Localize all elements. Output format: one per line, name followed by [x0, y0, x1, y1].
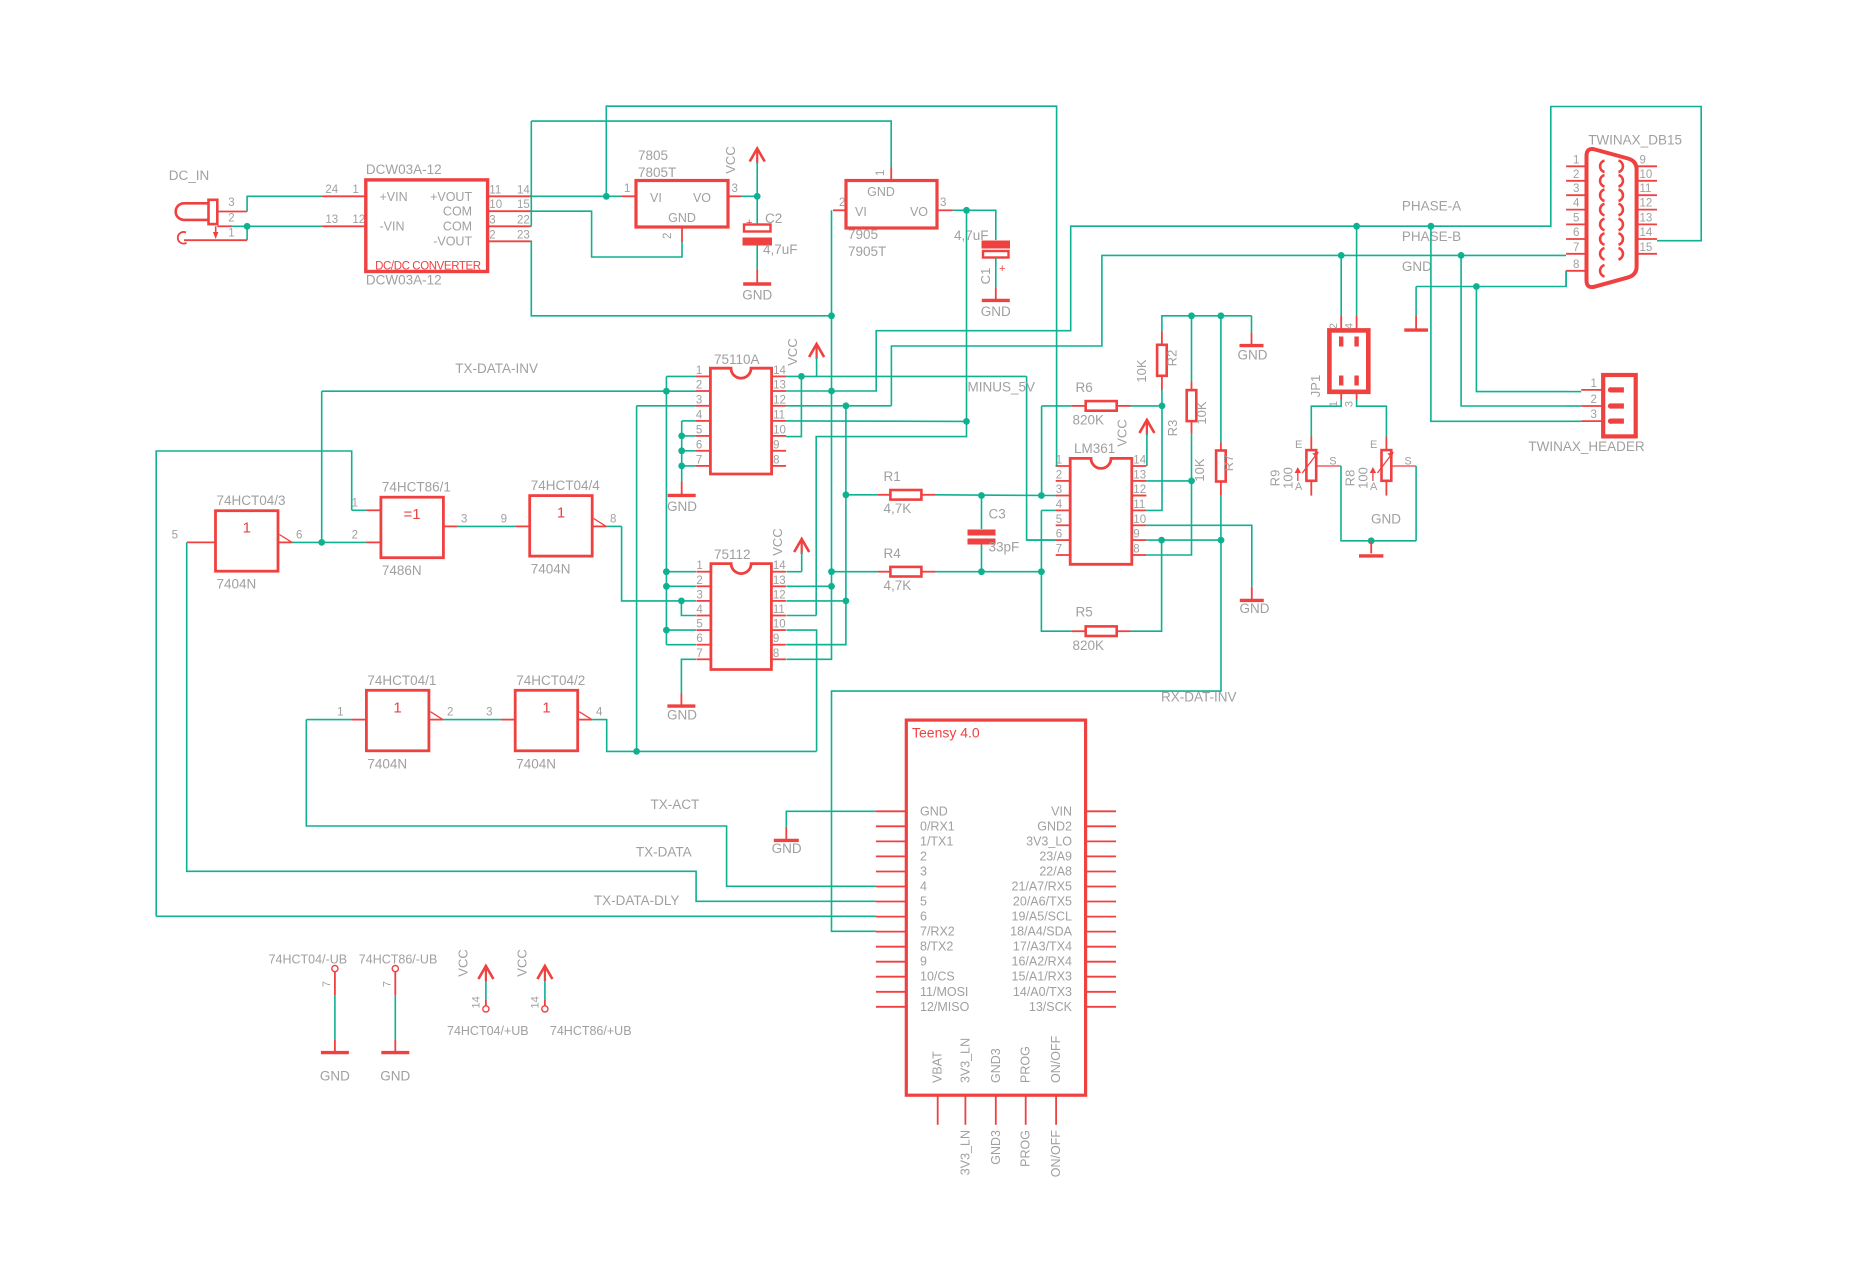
svg-text:21/A7/RX5: 21/A7/RX5: [1012, 880, 1073, 894]
svg-text:14: 14: [1133, 455, 1146, 467]
svg-text:R2: R2: [1165, 350, 1180, 367]
svg-text:+: +: [999, 263, 1005, 275]
svg-text:15: 15: [1640, 242, 1653, 254]
svg-text:A: A: [1370, 481, 1378, 493]
svg-text:+VOUT: +VOUT: [430, 190, 472, 204]
svg-text:8: 8: [773, 648, 779, 660]
svg-text:3: 3: [228, 197, 234, 209]
svg-text:10: 10: [1133, 514, 1146, 526]
svg-text:11: 11: [773, 409, 785, 421]
svg-text:10K: 10K: [1192, 458, 1207, 481]
svg-text:75110A: 75110A: [714, 352, 760, 367]
svg-text:9: 9: [773, 439, 779, 451]
svg-text:3: 3: [461, 514, 467, 526]
svg-text:4,7uF: 4,7uF: [763, 242, 798, 257]
svg-text:E: E: [1370, 439, 1377, 451]
svg-text:+VIN: +VIN: [380, 190, 408, 204]
svg-text:TX-DATA: TX-DATA: [636, 845, 692, 860]
svg-text:1: 1: [542, 699, 550, 716]
svg-text:COM: COM: [443, 220, 472, 234]
svg-text:1: 1: [624, 183, 630, 195]
svg-text:14: 14: [1640, 227, 1653, 239]
svg-text:R5: R5: [1076, 605, 1093, 620]
svg-text:VO: VO: [693, 191, 711, 205]
svg-text:GND: GND: [920, 804, 948, 818]
svg-text:LM361: LM361: [1074, 441, 1115, 456]
svg-text:1: 1: [352, 184, 358, 196]
svg-text:14: 14: [529, 996, 541, 1008]
svg-text:6: 6: [296, 530, 302, 542]
svg-text:13: 13: [1640, 212, 1653, 224]
svg-text:1: 1: [243, 520, 251, 537]
svg-text:3: 3: [1056, 484, 1062, 496]
svg-text:DCW03A-12: DCW03A-12: [366, 162, 442, 177]
svg-text:R6: R6: [1076, 380, 1093, 395]
svg-text:2: 2: [1573, 169, 1579, 181]
svg-text:3V3_LN: 3V3_LN: [958, 1038, 972, 1083]
svg-text:5: 5: [172, 530, 178, 542]
svg-text:22: 22: [517, 214, 530, 226]
svg-text:1: 1: [1056, 455, 1062, 467]
svg-text:9: 9: [501, 514, 507, 526]
svg-text:7404N: 7404N: [516, 756, 556, 771]
svg-text:1: 1: [696, 560, 702, 572]
svg-text:16/A2/RX4: 16/A2/RX4: [1012, 955, 1073, 969]
svg-text:S: S: [1329, 456, 1336, 468]
svg-text:7805T: 7805T: [638, 165, 676, 180]
svg-text:12: 12: [1640, 198, 1653, 210]
svg-text:74HCT04/-UB: 74HCT04/-UB: [269, 953, 348, 967]
svg-text:3V3_LN: 3V3_LN: [958, 1130, 972, 1175]
svg-text:12: 12: [773, 589, 786, 601]
svg-text:VI: VI: [650, 191, 662, 205]
svg-text:VCC: VCC: [455, 949, 470, 976]
svg-text:TX-DATA-INV: TX-DATA-INV: [455, 361, 538, 376]
svg-text:Teensy 4.0: Teensy 4.0: [912, 725, 980, 741]
svg-text:2: 2: [920, 849, 927, 863]
svg-text:2: 2: [839, 197, 845, 209]
svg-text:JP1: JP1: [1308, 375, 1323, 397]
svg-text:74HCT04/+UB: 74HCT04/+UB: [447, 1024, 529, 1038]
svg-text:19/A5/SCL: 19/A5/SCL: [1012, 910, 1073, 924]
svg-text:12: 12: [773, 394, 786, 406]
svg-text:4: 4: [1056, 499, 1063, 511]
svg-text:6: 6: [1056, 529, 1062, 541]
svg-text:7404N: 7404N: [531, 562, 571, 577]
svg-text:0/RX1: 0/RX1: [920, 819, 955, 833]
svg-text:11: 11: [773, 604, 785, 616]
svg-text:R7: R7: [1221, 455, 1236, 472]
svg-text:7486N: 7486N: [382, 563, 422, 578]
svg-text:VCC: VCC: [770, 528, 785, 555]
svg-text:5: 5: [696, 619, 702, 631]
svg-text:100: 100: [1280, 467, 1295, 489]
svg-text:2: 2: [489, 229, 495, 241]
svg-text:10: 10: [773, 424, 786, 436]
svg-text:14: 14: [470, 996, 482, 1008]
svg-text:1: 1: [337, 707, 343, 719]
svg-text:E: E: [1295, 439, 1302, 451]
svg-text:2: 2: [1056, 469, 1062, 481]
svg-text:GND: GND: [1402, 259, 1432, 274]
svg-text:8: 8: [1573, 259, 1579, 271]
svg-text:4,7uF: 4,7uF: [954, 228, 989, 243]
svg-text:VO: VO: [910, 205, 928, 219]
svg-text:1: 1: [875, 170, 887, 176]
svg-text:7: 7: [381, 981, 393, 987]
svg-text:3: 3: [489, 214, 495, 226]
svg-text:C2: C2: [765, 211, 782, 226]
svg-text:820K: 820K: [1073, 638, 1105, 653]
svg-text:GND: GND: [667, 499, 697, 514]
svg-text:11: 11: [1640, 183, 1652, 195]
svg-text:15/A1/RX3: 15/A1/RX3: [1012, 970, 1073, 984]
svg-text:DC/DC CONVERTER: DC/DC CONVERTER: [375, 260, 481, 272]
svg-text:12/MISO: 12/MISO: [920, 1000, 970, 1014]
svg-text:ON/OFF: ON/OFF: [1049, 1035, 1063, 1083]
svg-text:4: 4: [596, 707, 603, 719]
svg-text:6: 6: [696, 439, 702, 451]
svg-text:GND: GND: [667, 708, 697, 723]
svg-text:VCC: VCC: [723, 146, 738, 173]
svg-text:20/A6/TX5: 20/A6/TX5: [1013, 895, 1072, 909]
svg-text:12: 12: [1133, 484, 1146, 496]
svg-text:GND: GND: [1238, 348, 1268, 363]
svg-text:74HCT04/3: 74HCT04/3: [217, 493, 286, 508]
svg-text:1: 1: [1591, 378, 1597, 390]
svg-text:3: 3: [696, 394, 702, 406]
svg-text:74HCT04/4: 74HCT04/4: [531, 478, 601, 493]
svg-text:DCW03A-12: DCW03A-12: [366, 273, 442, 288]
svg-text:2: 2: [1591, 394, 1597, 406]
svg-text:+: +: [746, 217, 752, 229]
svg-text:S: S: [1404, 456, 1411, 468]
svg-text:10: 10: [773, 619, 786, 631]
svg-text:3: 3: [696, 589, 702, 601]
svg-text:13/SCK: 13/SCK: [1029, 1000, 1073, 1014]
svg-text:R1: R1: [884, 469, 901, 484]
svg-text:4: 4: [920, 880, 927, 894]
svg-text:14/A0/TX3: 14/A0/TX3: [1013, 985, 1072, 999]
svg-text:12: 12: [352, 214, 365, 226]
svg-text:2: 2: [696, 575, 702, 587]
svg-text:VCC: VCC: [1115, 419, 1130, 446]
svg-text:9: 9: [920, 955, 927, 969]
svg-text:13: 13: [325, 214, 338, 226]
svg-text:COM: COM: [443, 204, 472, 218]
svg-text:7404N: 7404N: [217, 577, 257, 592]
svg-text:2: 2: [352, 530, 358, 542]
svg-text:8/TX2: 8/TX2: [920, 940, 953, 954]
svg-text:11: 11: [489, 184, 501, 196]
svg-text:10K: 10K: [1194, 401, 1209, 424]
svg-text:5: 5: [920, 895, 927, 909]
svg-text:5: 5: [1056, 514, 1062, 526]
svg-text:9: 9: [1133, 529, 1139, 541]
svg-text:R3: R3: [1165, 420, 1180, 437]
svg-text:23: 23: [517, 229, 530, 241]
svg-text:A: A: [1295, 481, 1303, 493]
svg-text:GND: GND: [380, 1068, 410, 1083]
svg-text:17/A3/TX4: 17/A3/TX4: [1013, 940, 1072, 954]
svg-text:13: 13: [773, 575, 786, 587]
svg-text:GND3: GND3: [989, 1130, 1003, 1165]
svg-text:9: 9: [773, 633, 779, 645]
svg-text:GND: GND: [1371, 512, 1401, 527]
svg-text:4,7K: 4,7K: [884, 501, 912, 516]
svg-text:VCC: VCC: [785, 338, 800, 365]
svg-text:VIN: VIN: [1051, 804, 1072, 818]
svg-text:DC_IN: DC_IN: [169, 168, 210, 183]
svg-text:GND: GND: [772, 841, 802, 856]
svg-text:3V3_LO: 3V3_LO: [1026, 834, 1072, 848]
svg-text:2: 2: [662, 233, 674, 239]
svg-text:8: 8: [610, 514, 616, 526]
svg-text:4: 4: [696, 409, 703, 421]
svg-text:5: 5: [696, 424, 702, 436]
svg-text:GND: GND: [668, 211, 696, 225]
svg-text:22/A8: 22/A8: [1039, 865, 1072, 879]
svg-text:23/A9: 23/A9: [1039, 849, 1072, 863]
svg-text:13: 13: [773, 380, 786, 392]
svg-text:24: 24: [325, 184, 338, 196]
svg-text:3: 3: [1591, 409, 1597, 421]
svg-text:2: 2: [447, 707, 453, 719]
svg-text:GND3: GND3: [989, 1048, 1003, 1083]
svg-text:GND: GND: [742, 288, 772, 303]
svg-text:11: 11: [1133, 499, 1145, 511]
svg-text:9: 9: [1640, 154, 1646, 166]
svg-text:GND2: GND2: [1037, 819, 1072, 833]
svg-text:1/TX1: 1/TX1: [920, 834, 953, 848]
svg-text:7: 7: [696, 454, 702, 466]
svg-text:7/RX2: 7/RX2: [920, 925, 955, 939]
svg-text:5: 5: [1573, 212, 1579, 224]
svg-text:PHASE-A: PHASE-A: [1402, 198, 1461, 213]
svg-text:2: 2: [1328, 323, 1340, 329]
svg-text:14: 14: [773, 560, 786, 572]
svg-text:1: 1: [393, 699, 401, 716]
svg-text:C1: C1: [978, 268, 993, 285]
svg-text:-VIN: -VIN: [380, 220, 405, 234]
svg-text:33pF: 33pF: [989, 540, 1020, 555]
svg-text:3: 3: [920, 865, 927, 879]
svg-text:74HCT86/-UB: 74HCT86/-UB: [359, 953, 438, 967]
svg-text:6: 6: [1573, 227, 1579, 239]
svg-text:GND: GND: [981, 304, 1011, 319]
svg-text:7905T: 7905T: [848, 244, 886, 259]
svg-text:1: 1: [1573, 154, 1579, 166]
svg-text:100: 100: [1355, 467, 1370, 489]
svg-text:15: 15: [517, 199, 530, 211]
svg-text:1: 1: [352, 498, 358, 510]
svg-text:18/A4/SDA: 18/A4/SDA: [1010, 925, 1073, 939]
svg-text:3: 3: [940, 197, 946, 209]
svg-text:3: 3: [1344, 401, 1356, 407]
svg-text:10: 10: [489, 199, 502, 211]
svg-text:7: 7: [696, 648, 702, 660]
svg-text:TX-ACT: TX-ACT: [651, 797, 700, 812]
svg-text:820K: 820K: [1073, 413, 1105, 428]
svg-text:74HCT86/1: 74HCT86/1: [382, 480, 451, 495]
svg-text:10/CS: 10/CS: [920, 970, 955, 984]
svg-text:7: 7: [1056, 544, 1062, 556]
svg-text:14: 14: [517, 184, 530, 196]
svg-text:GND: GND: [867, 185, 895, 199]
svg-text:1: 1: [696, 365, 702, 377]
svg-text:8: 8: [773, 454, 779, 466]
svg-text:VBAT: VBAT: [931, 1051, 945, 1083]
svg-text:74HCT86/+UB: 74HCT86/+UB: [550, 1024, 632, 1038]
svg-text:MINUS_5V: MINUS_5V: [968, 380, 1036, 395]
svg-text:PROG: PROG: [1019, 1130, 1033, 1167]
svg-text:7: 7: [1573, 242, 1579, 254]
svg-text:6: 6: [696, 633, 702, 645]
svg-text:7404N: 7404N: [367, 756, 407, 771]
svg-text:R4: R4: [884, 546, 902, 561]
svg-text:VI: VI: [855, 205, 867, 219]
svg-text:PROG: PROG: [1019, 1046, 1033, 1083]
svg-text:3: 3: [486, 707, 492, 719]
svg-text:2: 2: [696, 380, 702, 392]
svg-text:75112: 75112: [714, 547, 751, 562]
svg-text:2: 2: [228, 213, 234, 225]
svg-text:GND: GND: [1240, 601, 1270, 616]
svg-text:74HCT04/1: 74HCT04/1: [367, 673, 436, 688]
svg-text:TWINAX_DB15: TWINAX_DB15: [1588, 132, 1682, 147]
svg-text:3: 3: [1573, 183, 1579, 195]
svg-text:4,7K: 4,7K: [884, 578, 912, 593]
svg-text:C3: C3: [989, 507, 1006, 522]
svg-text:VCC: VCC: [514, 949, 529, 976]
svg-text:4: 4: [1344, 323, 1356, 329]
svg-text:4: 4: [1573, 198, 1580, 210]
svg-text:7805: 7805: [638, 148, 668, 163]
svg-text:7905: 7905: [848, 227, 878, 242]
svg-text:-VOUT: -VOUT: [433, 235, 472, 249]
svg-text:10: 10: [1640, 169, 1653, 181]
svg-text:7: 7: [321, 981, 333, 987]
svg-text:10K: 10K: [1134, 359, 1149, 382]
svg-text:=1: =1: [404, 506, 421, 523]
svg-text:TX-DATA-DLY: TX-DATA-DLY: [594, 893, 680, 908]
svg-text:1: 1: [557, 505, 565, 522]
svg-text:GND: GND: [320, 1068, 350, 1083]
svg-text:TWINAX_HEADER: TWINAX_HEADER: [1528, 439, 1645, 454]
svg-text:6: 6: [920, 910, 927, 924]
svg-text:11/MOSI: 11/MOSI: [920, 985, 968, 999]
svg-text:8: 8: [1133, 544, 1139, 556]
svg-text:74HCT04/2: 74HCT04/2: [516, 673, 585, 688]
svg-text:ON/OFF: ON/OFF: [1049, 1130, 1063, 1178]
svg-text:1: 1: [228, 228, 234, 240]
svg-text:RX-DAT-INV: RX-DAT-INV: [1161, 690, 1237, 705]
svg-text:3: 3: [732, 183, 738, 195]
svg-text:13: 13: [1133, 469, 1146, 481]
svg-text:4: 4: [696, 604, 703, 616]
